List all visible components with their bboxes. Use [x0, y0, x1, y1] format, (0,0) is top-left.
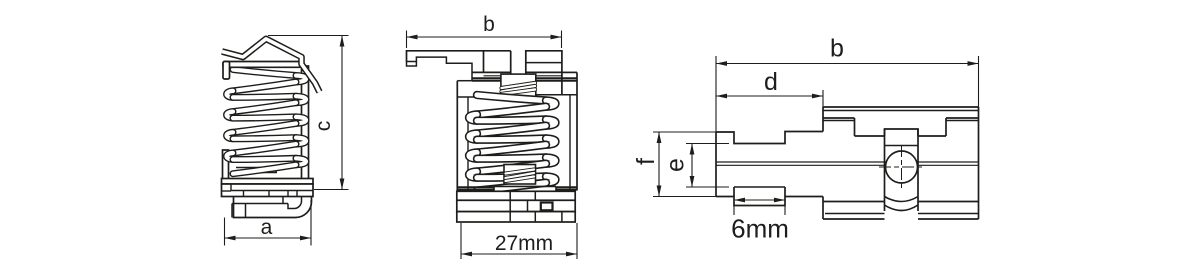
dim b extension lines (right fig)	[715, 56, 717, 132]
left ear block	[483, 51, 485, 73]
rounded elbow foot	[293, 197, 312, 218]
right edge	[978, 107, 980, 219]
dim a extension lines	[224, 218, 226, 246]
svg-text:b: b	[483, 13, 495, 36]
svg-text:b: b	[830, 35, 844, 63]
centre tab cap	[885, 129, 919, 136]
top recess	[854, 118, 856, 136]
channel right wall	[302, 66, 309, 181]
dim d line	[716, 95, 823, 97]
dim c top extension line	[268, 35, 349, 37]
lower spring guide column	[504, 165, 536, 185]
svg-text:a: a	[261, 216, 273, 239]
spring guide column	[501, 74, 536, 97]
flange row 3	[457, 212, 575, 222]
arm left foot	[407, 62, 417, 67]
dim 27mm line	[461, 253, 577, 255]
dim 6mm extension lines	[733, 206, 735, 216]
dim b extension lines (middle)	[406, 31, 408, 49]
body shoulders	[472, 71, 511, 73]
main coil spring, left view	[233, 70, 296, 76]
dim c bottom extension	[314, 189, 349, 191]
dim d extension line	[822, 90, 824, 132]
dim f line	[658, 132, 660, 197]
svg-text:d: d	[764, 68, 778, 96]
right view: top/plan profile	[632, 35, 979, 244]
channel top rail	[223, 62, 301, 68]
roof / clip top strip	[222, 39, 320, 92]
screw hole circle	[886, 151, 918, 183]
main coil spring, front view	[477, 95, 546, 101]
base block	[222, 184, 314, 197]
dim f extension lines	[653, 131, 729, 133]
flank shelves	[457, 96, 501, 98]
top ledges	[823, 117, 855, 119]
spring seat plate	[231, 172, 277, 174]
seat plates	[494, 185, 556, 187]
left edge	[715, 132, 717, 197]
dim b line (middle)	[407, 36, 562, 38]
centre column sides	[884, 129, 886, 211]
flange row 1	[457, 191, 575, 200]
circle centrelines	[879, 166, 924, 168]
dim a line	[225, 237, 312, 239]
gasket bands above flange	[457, 186, 494, 188]
channel left wall, upper stub	[223, 62, 230, 80]
svg-text:c: c	[312, 121, 335, 132]
bottom ledges	[823, 201, 885, 203]
svg-text:27mm: 27mm	[495, 232, 553, 255]
middle view: front elevation	[407, 13, 578, 259]
6mm tab	[734, 186, 785, 188]
bottom band	[825, 213, 885, 215]
right ear block	[526, 51, 562, 95]
flange row 2	[457, 200, 575, 211]
body side walls	[456, 81, 458, 191]
channel left wall, lower stub	[223, 150, 229, 186]
svg-text:e: e	[662, 158, 690, 172]
svg-text:6mm: 6mm	[731, 214, 789, 244]
flank inner wall verticals	[467, 97, 469, 191]
dim 27mm extension lines	[460, 223, 462, 259]
bottom saddle arcs	[885, 197, 919, 202]
neck top profile	[716, 132, 823, 144]
left view: DIN-rail spring element, side elevation	[222, 36, 349, 246]
svg-text:f: f	[632, 158, 660, 165]
base top band	[222, 179, 314, 185]
centre seam lines	[716, 161, 979, 163]
dim e line	[691, 144, 693, 188]
neck bottom edge	[716, 196, 734, 198]
compressed coil in column	[502, 83, 536, 88]
base block inner lines	[230, 184, 232, 191]
dim c line	[341, 36, 343, 190]
lower latch body	[234, 197, 294, 218]
dim b line (right fig)	[716, 63, 979, 65]
right section top	[823, 106, 979, 108]
top-left mounting arm	[407, 51, 511, 62]
dim 6mm line	[734, 199, 785, 201]
small latch box	[541, 203, 553, 211]
gasket band	[472, 77, 501, 79]
dim e extension lines	[686, 143, 729, 145]
